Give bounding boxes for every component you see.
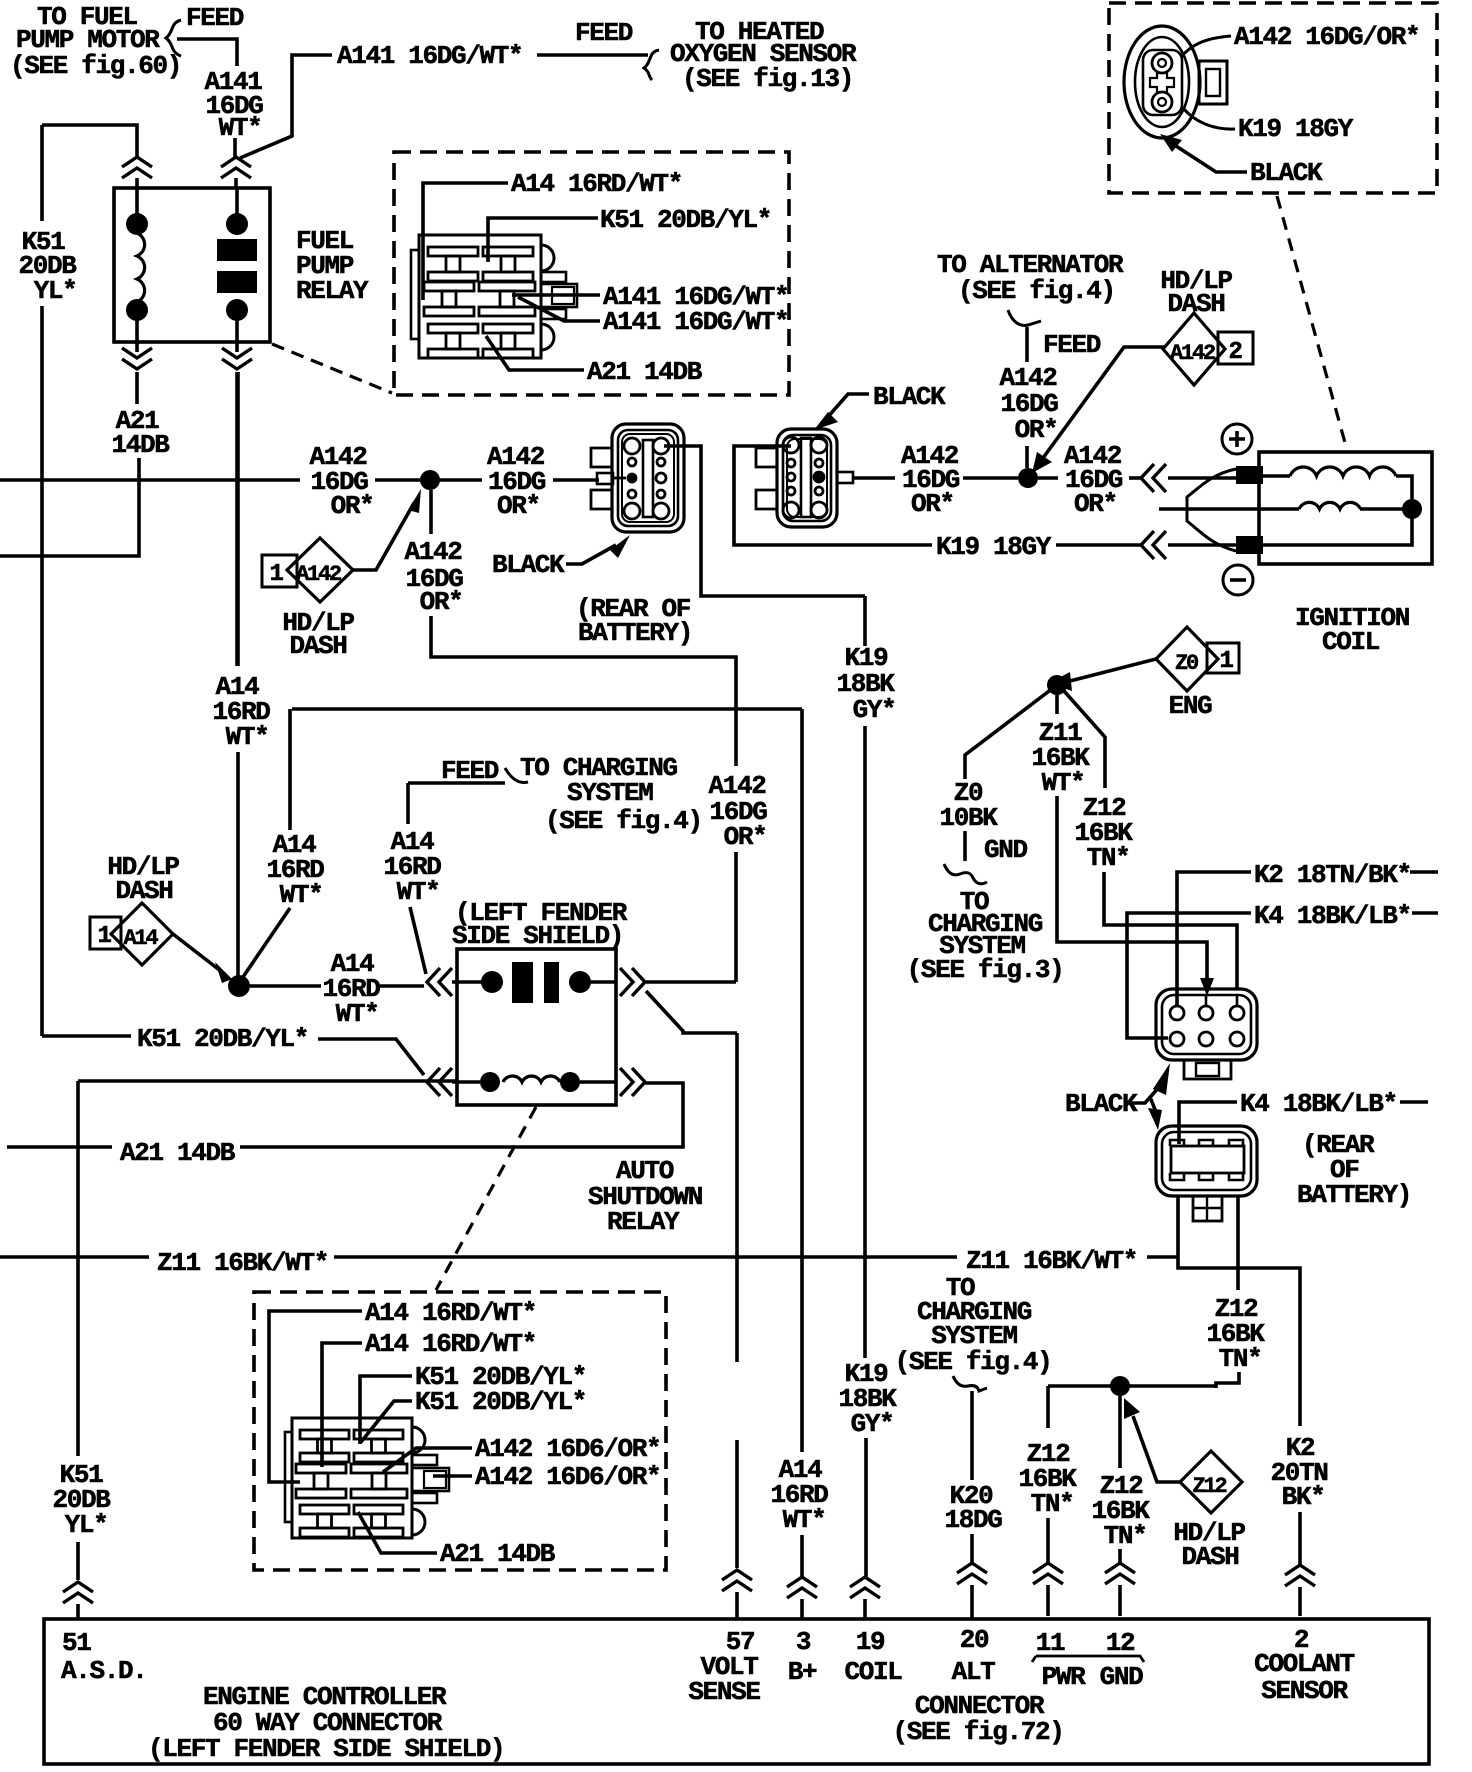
svg-text:FEED: FEED <box>1043 330 1101 360</box>
svg-text:1: 1 <box>269 561 283 588</box>
svg-text:K51 20DB/YL*: K51 20DB/YL* <box>137 1024 308 1054</box>
svg-text:ENG: ENG <box>1169 691 1213 721</box>
svg-text:GND: GND <box>1100 1662 1144 1692</box>
svg-text:DASH: DASH <box>289 631 346 661</box>
svg-text:(SEE fig.60): (SEE fig.60) <box>10 51 181 81</box>
svg-text:TN*: TN* <box>1219 1344 1262 1374</box>
svg-text:OR*: OR* <box>1015 415 1058 445</box>
svg-text:DASH: DASH <box>1181 1542 1238 1572</box>
svg-text:BLACK: BLACK <box>1250 158 1323 188</box>
svg-text:A142: A142 <box>296 562 341 587</box>
svg-text:A21 14DB: A21 14DB <box>440 1539 556 1569</box>
svg-text:WT*: WT* <box>219 113 262 143</box>
svg-text:GND: GND <box>984 835 1028 865</box>
svg-text:Z0: Z0 <box>1175 651 1198 676</box>
svg-text:COIL: COIL <box>844 1657 902 1687</box>
svg-text:A14 16RD/WT*: A14 16RD/WT* <box>365 1298 536 1328</box>
svg-text:K19 18GY: K19 18GY <box>936 532 1052 562</box>
svg-text:SYSTEM: SYSTEM <box>567 778 653 808</box>
svg-text:TN*: TN* <box>1104 1521 1147 1551</box>
svg-text:(SEE fig.4): (SEE fig.4) <box>895 1347 1052 1377</box>
svg-text:K19 18GY: K19 18GY <box>1238 114 1354 144</box>
svg-text:A142: A142 <box>1170 341 1215 366</box>
svg-text:TN*: TN* <box>1031 1489 1074 1519</box>
svg-text:BLACK: BLACK <box>1065 1089 1138 1119</box>
svg-text:WT*: WT* <box>1042 768 1085 798</box>
svg-text:19: 19 <box>856 1627 885 1657</box>
svg-text:WT*: WT* <box>336 999 379 1029</box>
svg-text:Z11 16BK/WT*: Z11 16BK/WT* <box>157 1248 328 1278</box>
svg-text:RELAY: RELAY <box>296 276 369 306</box>
svg-text:K2 18TN/BK*: K2 18TN/BK* <box>1254 860 1411 890</box>
svg-text:FEED: FEED <box>575 18 633 48</box>
svg-text:BLACK: BLACK <box>492 550 565 580</box>
svg-text:Z11 16BK/WT*: Z11 16BK/WT* <box>966 1246 1137 1276</box>
svg-text:K51 20DB/YL*: K51 20DB/YL* <box>415 1387 586 1417</box>
svg-text:K51 20DB/YL*: K51 20DB/YL* <box>600 205 771 235</box>
svg-text:TN*: TN* <box>1087 843 1130 873</box>
svg-text:OR*: OR* <box>420 587 463 617</box>
svg-text:A14 16RD/WT*: A14 16RD/WT* <box>365 1329 536 1359</box>
svg-text:GY*: GY* <box>851 1409 894 1439</box>
svg-text:51: 51 <box>62 1628 91 1658</box>
svg-text:A142 16DG/OR*: A142 16DG/OR* <box>1234 22 1419 52</box>
svg-text:FEED: FEED <box>441 756 499 786</box>
svg-text:PWR: PWR <box>1042 1662 1087 1692</box>
svg-text:18DG: 18DG <box>944 1505 1002 1535</box>
svg-text:A142: A142 <box>404 537 462 567</box>
svg-text:WT*: WT* <box>280 880 323 910</box>
svg-text:COOLANT: COOLANT <box>1254 1649 1355 1679</box>
svg-text:A14 16RD/WT*: A14 16RD/WT* <box>511 169 682 199</box>
svg-text:ALT: ALT <box>952 1657 996 1687</box>
svg-text:Z12: Z12 <box>1192 1474 1226 1499</box>
svg-text:RELAY: RELAY <box>607 1207 680 1237</box>
svg-text:(SEE fig.72): (SEE fig.72) <box>892 1717 1063 1747</box>
svg-text:BATTERY): BATTERY) <box>578 618 692 648</box>
svg-text:K4 18BK/LB*: K4 18BK/LB* <box>1254 901 1411 931</box>
svg-text:B+: B+ <box>788 1657 817 1687</box>
svg-text:BLACK: BLACK <box>873 382 946 412</box>
svg-text:A141 16DG/WT*: A141 16DG/WT* <box>603 307 788 337</box>
svg-text:BATTERY): BATTERY) <box>1297 1180 1411 1210</box>
svg-text:WT*: WT* <box>226 722 269 752</box>
svg-text:12: 12 <box>1106 1628 1135 1658</box>
svg-text:A142 16D6/OR*: A142 16D6/OR* <box>475 1462 660 1492</box>
svg-text:COIL: COIL <box>1322 627 1380 657</box>
svg-text:SENSOR: SENSOR <box>1261 1676 1348 1706</box>
svg-text:10BK: 10BK <box>939 803 998 833</box>
svg-text:A.S.D.: A.S.D. <box>61 1656 147 1686</box>
svg-text:OR*: OR* <box>331 491 374 521</box>
svg-text:DASH: DASH <box>115 876 172 906</box>
svg-text:SIDE SHIELD): SIDE SHIELD) <box>452 921 623 951</box>
svg-text:(SEE fig.4): (SEE fig.4) <box>545 806 702 836</box>
svg-text:2: 2 <box>1228 339 1241 366</box>
svg-text:14DB: 14DB <box>111 430 170 460</box>
svg-text:WT*: WT* <box>397 877 440 907</box>
svg-text:(LEFT FENDER SIDE SHIELD): (LEFT FENDER SIDE SHIELD) <box>148 1734 504 1764</box>
svg-text:OR*: OR* <box>497 491 540 521</box>
svg-text:YL*: YL* <box>65 1510 108 1540</box>
svg-text:OR*: OR* <box>1074 489 1117 519</box>
svg-text:(SEE fig.13): (SEE fig.13) <box>682 64 853 94</box>
svg-text:A21 14DB: A21 14DB <box>120 1138 236 1168</box>
svg-text:(SEE fig.4): (SEE fig.4) <box>958 276 1115 306</box>
svg-text:A142 16D6/OR*: A142 16D6/OR* <box>475 1434 660 1464</box>
svg-text:GY*: GY* <box>853 695 896 725</box>
svg-text:OR*: OR* <box>911 489 954 519</box>
svg-text:A14: A14 <box>123 926 158 951</box>
svg-text:SENSE: SENSE <box>688 1677 760 1707</box>
svg-text:1: 1 <box>1219 648 1233 675</box>
svg-text:11: 11 <box>1036 1628 1065 1658</box>
svg-text:DASH: DASH <box>1167 289 1224 319</box>
svg-text:FEED: FEED <box>186 3 244 33</box>
svg-text:1: 1 <box>97 923 111 950</box>
svg-text:YL*: YL* <box>34 276 77 306</box>
svg-text:A21 14DB: A21 14DB <box>587 357 703 387</box>
svg-text:A141 16DG/WT*: A141 16DG/WT* <box>337 41 522 71</box>
svg-text:WT*: WT* <box>783 1505 826 1535</box>
svg-text:OR*: OR* <box>724 822 767 852</box>
svg-text:BK*: BK* <box>1282 1482 1325 1512</box>
svg-text:K4 18BK/LB*: K4 18BK/LB* <box>1240 1089 1397 1119</box>
svg-text:(SEE fig.3): (SEE fig.3) <box>907 955 1064 985</box>
svg-text:20: 20 <box>960 1625 989 1655</box>
svg-text:3: 3 <box>796 1627 811 1657</box>
